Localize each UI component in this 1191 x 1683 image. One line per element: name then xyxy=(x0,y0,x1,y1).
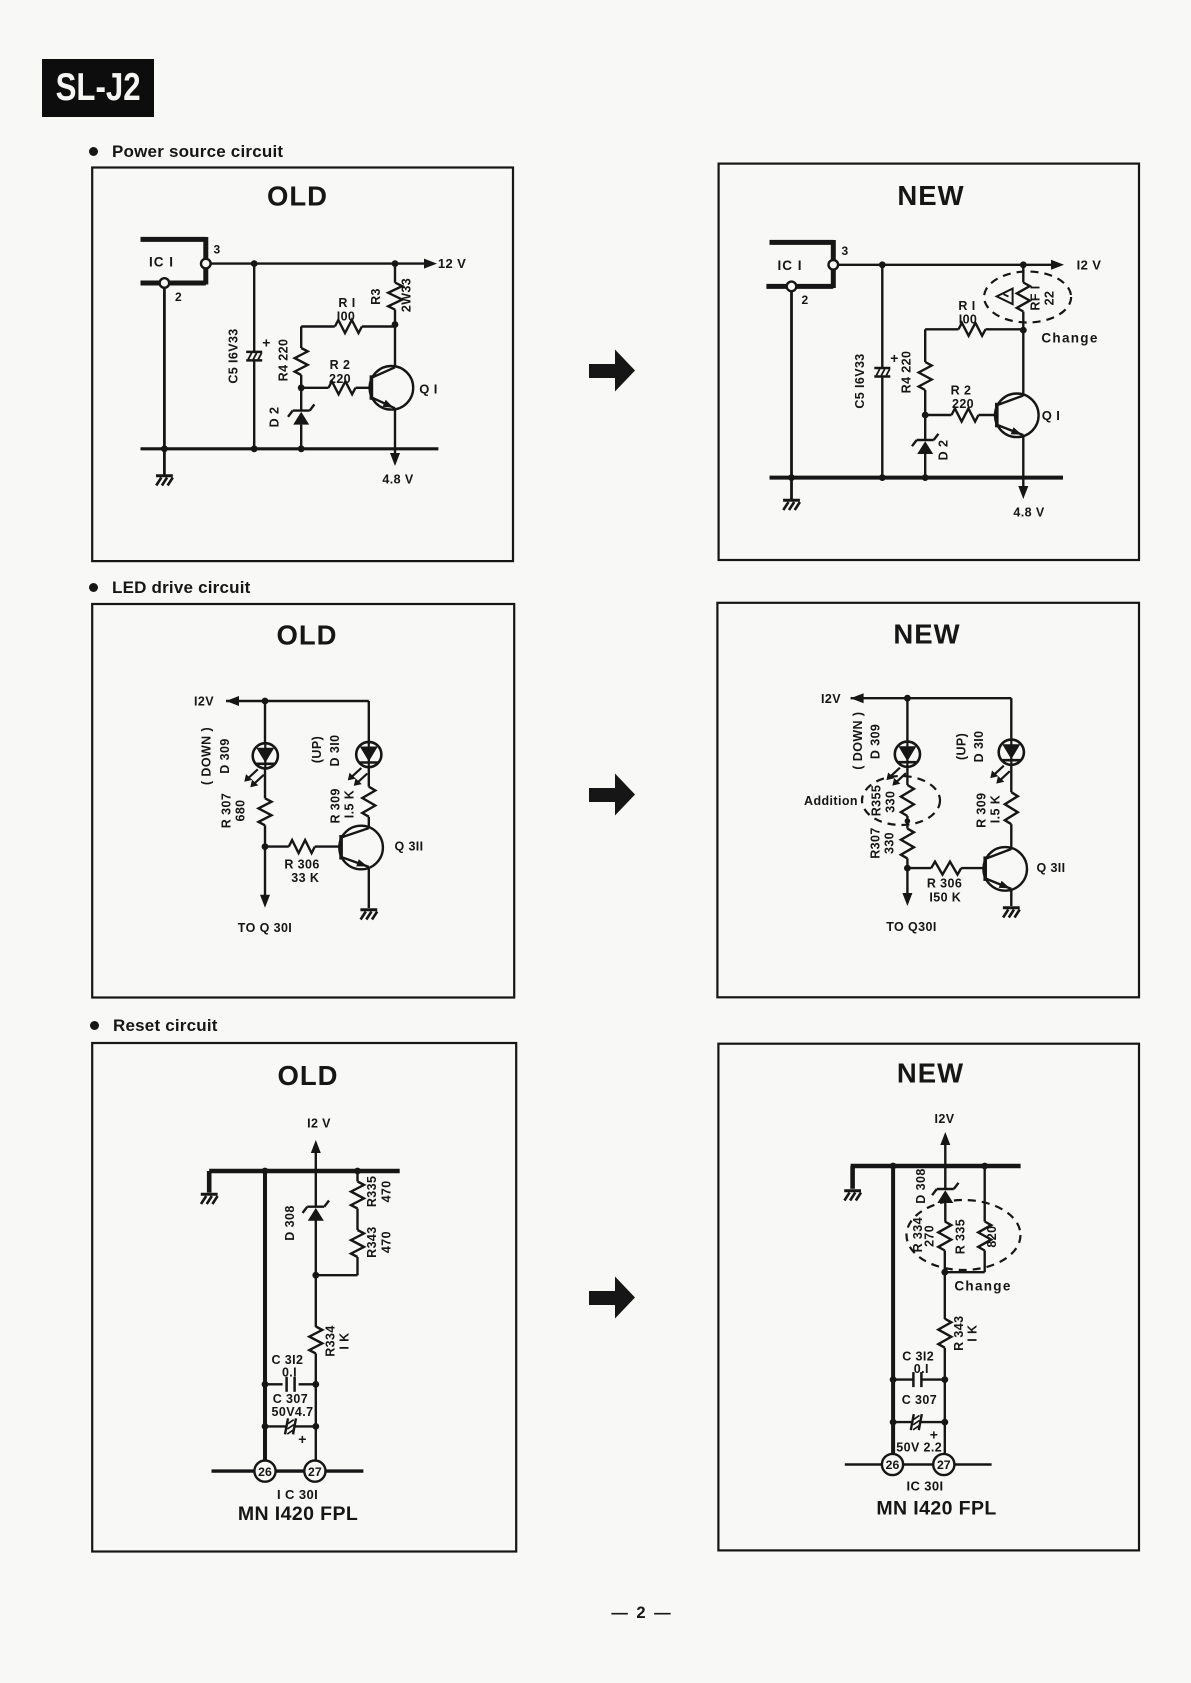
svg-text:MN I420 FPL: MN I420 FPL xyxy=(238,1503,358,1525)
svg-text:OLD: OLD xyxy=(276,620,337,651)
wire 12V rail xyxy=(833,264,1053,266)
capacitor C307 xyxy=(265,1425,287,1427)
svg-text:3: 3 xyxy=(841,244,848,258)
svg-text:12 V: 12 V xyxy=(438,256,466,271)
junction dots ground rail xyxy=(161,445,168,452)
junction dots 12V rail xyxy=(251,260,258,267)
svg-text:NEW: NEW xyxy=(893,619,960,650)
section heading: Power source circuit xyxy=(89,142,283,162)
node R355-R307 xyxy=(905,818,911,824)
svg-text:C 307: C 307 xyxy=(902,1393,937,1407)
svg-text:R 306: R 306 xyxy=(284,857,319,871)
node R307-R306 xyxy=(904,865,911,872)
svg-text:Q 3II: Q 3II xyxy=(1036,861,1065,875)
panel frame: LED drive OLD xyxy=(92,604,514,998)
svg-text:D 3I0: D 3I0 xyxy=(328,735,342,767)
svg-text:820: 820 xyxy=(985,1226,999,1248)
svg-text:I2 V: I2 V xyxy=(1077,257,1102,272)
transistor Q1 xyxy=(995,394,1039,438)
svg-text:R 2: R 2 xyxy=(330,358,351,372)
old-to-new arrow 3 xyxy=(589,1276,635,1318)
capacitor C5 wire xyxy=(253,264,255,352)
wire R335 to node xyxy=(945,1271,985,1273)
pin 26 xyxy=(882,1454,903,1475)
svg-text:R 307: R 307 xyxy=(220,793,234,828)
svg-text:Change: Change xyxy=(1041,330,1098,345)
change ellipse xyxy=(907,1200,1021,1270)
resistor R1 xyxy=(925,328,958,330)
svg-text:I50 K: I50 K xyxy=(929,891,961,905)
resistor R306 xyxy=(907,867,931,869)
svg-text:I2V: I2V xyxy=(935,1112,955,1126)
model badge SL-J2 xyxy=(42,59,154,117)
node R334-R335-R343 xyxy=(941,1269,948,1276)
resistor R4 xyxy=(924,329,926,362)
svg-text:R 309: R 309 xyxy=(975,793,989,828)
panel frame: LED drive NEW xyxy=(717,603,1139,998)
svg-text:( DOWN ): ( DOWN ) xyxy=(200,727,214,785)
C312 junction dots xyxy=(890,1376,897,1383)
LED D310 xyxy=(1010,740,1012,765)
Q311 emitter ground xyxy=(368,868,370,908)
junction dots rail xyxy=(262,1168,269,1175)
svg-text:4.8 V: 4.8 V xyxy=(1013,506,1044,520)
svg-text:470: 470 xyxy=(380,1231,394,1253)
svg-text:26: 26 xyxy=(258,1465,272,1479)
svg-text:I K: I K xyxy=(966,1325,980,1342)
pin 26 xyxy=(254,1461,275,1482)
svg-text:50V4.7: 50V4.7 xyxy=(271,1405,313,1419)
svg-text:I.5 K: I.5 K xyxy=(343,790,357,818)
svg-text:D 309: D 309 xyxy=(218,738,232,773)
resistor R309 xyxy=(368,767,370,787)
pin 27 xyxy=(304,1461,325,1482)
svg-text:27: 27 xyxy=(937,1458,951,1472)
Q311 emitter ground xyxy=(1010,889,1012,906)
node D308-R343-R334 xyxy=(312,1272,319,1279)
wire node to R334 xyxy=(315,1275,317,1327)
svg-text:(UP): (UP) xyxy=(310,736,324,763)
svg-text:50V 2.2: 50V 2.2 xyxy=(896,1441,942,1455)
wire pin2 to ground rail xyxy=(163,288,166,449)
svg-text:D 2: D 2 xyxy=(937,440,951,461)
resistor R309 xyxy=(1010,765,1012,792)
svg-text:R 306: R 306 xyxy=(927,876,962,890)
resistor R335 xyxy=(984,1166,986,1222)
svg-text:4.8 V: 4.8 V xyxy=(382,473,413,487)
ground symbol xyxy=(790,478,793,499)
zener diode D308 xyxy=(315,1171,317,1207)
wire to LED D309 xyxy=(906,698,908,742)
zener diode D2 xyxy=(924,415,926,440)
wire R343 to node xyxy=(316,1274,358,1276)
junction dots rail xyxy=(890,1163,897,1170)
resistor R335 xyxy=(356,1171,358,1182)
resistor R306 xyxy=(265,845,289,847)
wire right branch xyxy=(368,701,370,744)
zener diode D2 xyxy=(300,388,302,411)
rail left drop xyxy=(207,1171,212,1193)
svg-text:TO Q30I: TO Q30I xyxy=(886,920,937,934)
resistor R4 xyxy=(295,348,308,375)
transistor Q311 xyxy=(339,826,383,870)
svg-text:D 3I0: D 3I0 xyxy=(972,730,986,762)
svg-text:+: + xyxy=(262,335,271,351)
svg-text:2: 2 xyxy=(801,293,808,307)
IC1 outline xyxy=(770,240,834,245)
svg-text:D 2: D 2 xyxy=(268,407,282,428)
wire R1 top link xyxy=(300,327,302,349)
svg-text:R 309: R 309 xyxy=(329,788,343,823)
LED D309 xyxy=(906,742,908,767)
ground rail xyxy=(770,476,1064,480)
svg-text:MN I420 FPL: MN I420 FPL xyxy=(876,1498,996,1520)
svg-text:I00: I00 xyxy=(337,310,356,324)
svg-text:330: 330 xyxy=(883,832,897,854)
svg-text:0.I: 0.I xyxy=(914,1362,929,1376)
C307 junction dots xyxy=(890,1419,897,1426)
capacitor C5 wire xyxy=(881,265,883,368)
IC1 outline xyxy=(141,237,206,242)
resistor R3 xyxy=(394,264,396,283)
svg-text:R 2: R 2 xyxy=(951,384,972,398)
transistor Q311 xyxy=(983,847,1027,891)
junction dots ground rail xyxy=(788,474,795,481)
supply rail thick xyxy=(209,1169,400,1174)
svg-text:220: 220 xyxy=(329,372,351,386)
Q1 emitter wire 4.8V xyxy=(394,408,396,461)
node R4-R2-D2 xyxy=(298,384,305,391)
capacitor C307 xyxy=(893,1421,912,1423)
svg-text:( DOWN ): ( DOWN ) xyxy=(851,712,865,770)
svg-text:27: 27 xyxy=(308,1465,322,1479)
svg-text:IC 30I: IC 30I xyxy=(906,1479,943,1494)
LED D310 xyxy=(368,742,370,767)
fusible resistor RF1 xyxy=(1022,265,1024,283)
svg-text:I.5 K: I.5 K xyxy=(989,795,1003,823)
svg-text:C5 I6V33: C5 I6V33 xyxy=(227,328,241,383)
node RF1-R1-collector xyxy=(1020,327,1027,334)
svg-text:R 343: R 343 xyxy=(952,1316,966,1351)
RF1 warning triangle xyxy=(997,289,1013,305)
capacitor C5 xyxy=(874,367,890,370)
svg-text:R355: R355 xyxy=(870,785,884,816)
svg-text:R4 220: R4 220 xyxy=(277,339,291,382)
svg-text:OLD: OLD xyxy=(267,181,328,212)
svg-text:I2V: I2V xyxy=(194,695,214,709)
section heading: Reset circuit xyxy=(90,1016,218,1036)
svg-text:NEW: NEW xyxy=(897,1058,964,1089)
pin 2 terminal xyxy=(787,282,797,292)
panel frame: power source NEW xyxy=(719,164,1139,560)
svg-text:+: + xyxy=(298,1431,307,1447)
svg-text:NEW: NEW xyxy=(897,180,964,211)
left bus wire xyxy=(263,1171,267,1461)
zener diode D308 xyxy=(944,1166,946,1189)
svg-text:0.I: 0.I xyxy=(282,1366,297,1380)
C307 junction dots xyxy=(262,1423,269,1430)
resistor R334 xyxy=(938,1222,951,1251)
wire 12V rail xyxy=(851,697,1012,699)
svg-text:IC I: IC I xyxy=(149,255,174,270)
svg-text:Addition: Addition xyxy=(804,794,858,808)
svg-text:Q I: Q I xyxy=(419,382,438,397)
svg-text:3: 3 xyxy=(213,243,220,257)
svg-text:D 309: D 309 xyxy=(869,724,883,759)
ground rail xyxy=(141,447,439,450)
svg-text:D 308: D 308 xyxy=(283,1205,297,1240)
addition ellipse xyxy=(862,776,940,825)
svg-text:R307: R307 xyxy=(869,827,883,858)
svg-text:2: 2 xyxy=(175,290,182,304)
wire to LED D309 xyxy=(264,701,266,744)
svg-text:R 335: R 335 xyxy=(954,1219,968,1254)
svg-text:C 307: C 307 xyxy=(273,1392,308,1406)
junction dot left branch xyxy=(904,695,911,702)
ground symbol xyxy=(844,1189,861,1192)
resistor R334 xyxy=(309,1327,322,1354)
svg-text:RF I: RF I xyxy=(1029,285,1043,310)
svg-text:I K: I K xyxy=(338,1332,352,1349)
page number xyxy=(592,1604,692,1623)
ground symbol xyxy=(201,1193,218,1196)
wire node to R343 xyxy=(944,1272,946,1319)
svg-text:I00: I00 xyxy=(959,313,978,327)
resistor R1 xyxy=(301,325,335,327)
transistor Q1 xyxy=(370,366,414,410)
node 12V arrow xyxy=(1051,260,1064,270)
svg-text:IC I: IC I xyxy=(777,258,802,273)
svg-text:Q 3II: Q 3II xyxy=(394,840,423,854)
node R307-R306 xyxy=(262,843,269,850)
IC301 pin rail xyxy=(212,1469,364,1472)
node R1-R3-collector xyxy=(392,321,399,328)
svg-text:22: 22 xyxy=(1043,291,1057,306)
old-to-new arrow 1 xyxy=(589,349,635,391)
svg-text:R4 220: R4 220 xyxy=(900,351,914,394)
svg-text:+: + xyxy=(890,350,899,366)
svg-text:I2 V: I2 V xyxy=(307,1117,331,1131)
Q1 emitter wire 4.8V xyxy=(1022,436,1024,495)
svg-text:R334: R334 xyxy=(324,1325,338,1356)
svg-text:OLD: OLD xyxy=(277,1060,338,1091)
pin 27 xyxy=(933,1454,954,1475)
panel frame: reset NEW xyxy=(718,1044,1139,1551)
junction dot left branch xyxy=(262,698,269,705)
resistor R2 xyxy=(301,387,328,389)
resistor R307 xyxy=(906,821,908,829)
ground symbol xyxy=(163,449,166,475)
svg-text:(UP): (UP) xyxy=(955,733,969,760)
wire right branch xyxy=(1010,698,1012,740)
wire TO Q301 xyxy=(906,868,908,900)
svg-text:Change: Change xyxy=(954,1278,1011,1293)
pin 3 terminal xyxy=(829,260,839,270)
supply rail thick xyxy=(851,1164,1021,1169)
svg-text:D 308: D 308 xyxy=(914,1168,928,1203)
wire TO Q301 xyxy=(264,847,266,902)
C312 junction dots xyxy=(262,1381,269,1388)
resistor R355 xyxy=(906,767,908,785)
svg-text:R I: R I xyxy=(338,296,355,310)
svg-text:R343: R343 xyxy=(365,1226,379,1257)
capacitor C5 xyxy=(246,351,262,354)
capacitor C312 xyxy=(265,1383,283,1385)
svg-text:2W33: 2W33 xyxy=(400,278,414,312)
resistor R2 xyxy=(925,414,951,416)
wire 12V rail xyxy=(226,700,369,702)
svg-text:R335: R335 xyxy=(365,1176,379,1207)
section heading: LED drive circuit xyxy=(89,578,251,598)
svg-text:270: 270 xyxy=(923,1225,937,1247)
svg-text:680: 680 xyxy=(234,799,248,821)
junction dots 12V rail xyxy=(879,261,886,268)
node R4-R2-D2 xyxy=(922,412,929,419)
LED D309 xyxy=(264,743,266,768)
RF1 change ellipse xyxy=(984,272,1071,323)
svg-text:TO Q 30I: TO Q 30I xyxy=(238,921,292,935)
svg-text:470: 470 xyxy=(380,1180,394,1202)
svg-text:33 K: 33 K xyxy=(291,871,319,885)
resistor R343 xyxy=(351,1230,364,1257)
svg-text:I2V: I2V xyxy=(821,692,841,706)
node 12V arrow xyxy=(424,259,437,269)
rail left drop xyxy=(850,1166,855,1189)
svg-text:220: 220 xyxy=(952,397,974,411)
svg-text:R I: R I xyxy=(958,299,975,313)
resistor R307 xyxy=(264,768,266,798)
pin 3 terminal xyxy=(201,259,211,269)
svg-text:26: 26 xyxy=(886,1458,900,1472)
capacitor C312 xyxy=(893,1378,913,1380)
resistor R343 xyxy=(938,1319,951,1348)
left bus wire xyxy=(891,1166,895,1454)
svg-text:Q I: Q I xyxy=(1042,408,1061,423)
svg-text:C5 I6V33: C5 I6V33 xyxy=(853,353,867,408)
IC301 pin rail xyxy=(845,1463,992,1466)
svg-text:330: 330 xyxy=(884,791,898,813)
wire 12V rail xyxy=(206,262,426,264)
panel frame: reset OLD xyxy=(92,1043,516,1552)
old-to-new arrow 2 xyxy=(589,773,635,815)
pin 2 terminal xyxy=(160,278,170,288)
svg-text:R3: R3 xyxy=(369,288,383,305)
panel frame: power source OLD xyxy=(92,168,513,562)
svg-text:I C 30I: I C 30I xyxy=(277,1487,318,1502)
wire pin2 to ground rail xyxy=(790,291,793,477)
